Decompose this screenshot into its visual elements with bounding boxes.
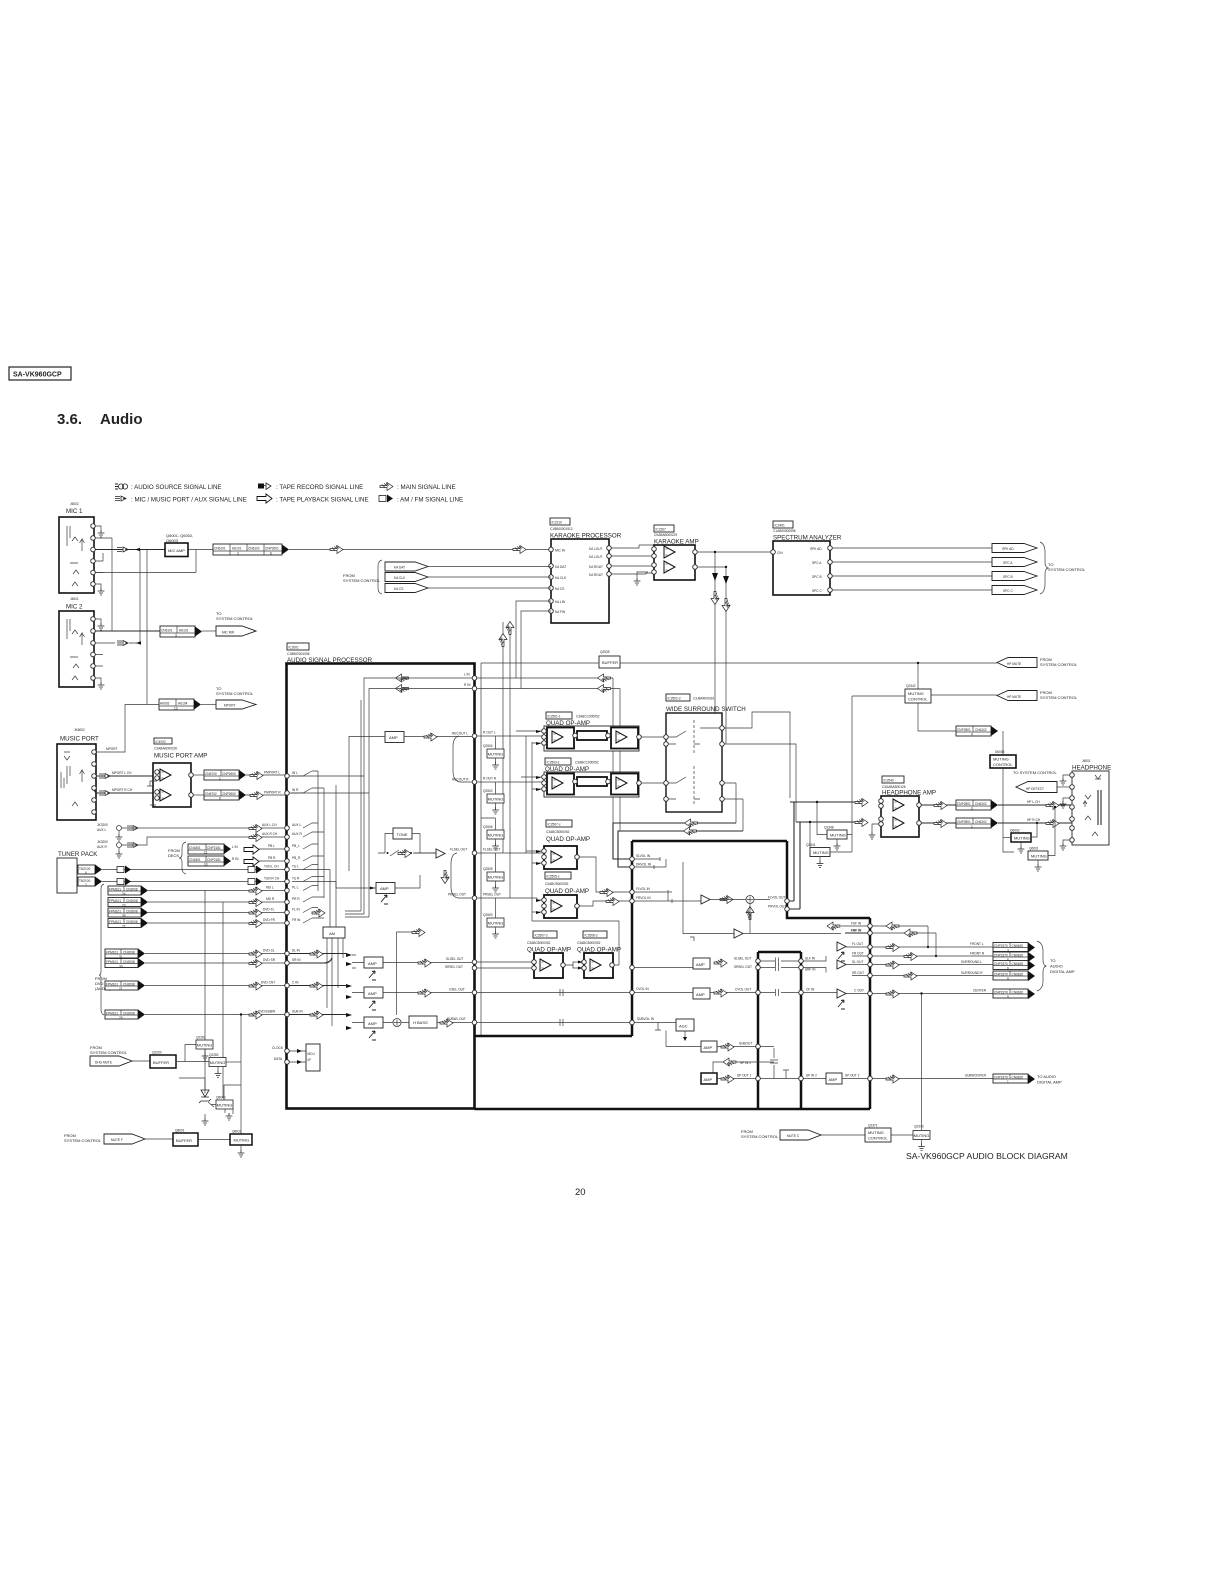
svg-text:C3JBAR00026: C3JBAR00026	[693, 697, 714, 701]
volume arrow under FL triangle	[838, 952, 845, 961]
volume arrow SL amp	[369, 971, 376, 980]
wire quad1 out to wss	[641, 736, 664, 738]
svg-text:IC2267: IC2267	[656, 528, 667, 532]
svg-text:AMP: AMP	[368, 961, 377, 966]
sp out 1 pin	[756, 1076, 761, 1081]
wire L IN row	[477, 677, 613, 679]
TN2100 connector L	[78, 865, 102, 876]
svg-text:MIC RW: MIC RW	[222, 631, 234, 635]
svg-text:TU L: TU L	[292, 865, 299, 869]
muting Q2504	[483, 736, 504, 769]
thick drvol feed line	[618, 831, 743, 867]
quad5 to quad6 wires	[565, 961, 583, 970]
main arrow SR OUT	[904, 972, 917, 980]
main arrow after fr amp	[720, 896, 733, 904]
svg-text:SA-VK960GCP: SA-VK960GCP	[13, 372, 62, 379]
MIC2 pin ground stubs	[95, 619, 104, 689]
svg-text:CN2008: CN2008	[123, 983, 135, 987]
svg-text:TO: TO	[1050, 958, 1055, 963]
recout hook to recout R	[453, 736, 472, 782]
main arrow hp L jack	[1046, 802, 1059, 810]
connector CNP2370 CN6620 center	[993, 989, 1035, 999]
svg-text:FLSEL OUT: FLSEL OUT	[483, 848, 500, 852]
svg-text:RECOUT L: RECOUT L	[452, 732, 468, 736]
wire to ASP in R	[246, 794, 287, 796]
main arrow mport R	[250, 792, 263, 800]
IC6702 boxed label	[154, 738, 172, 744]
svg-text:CNP2181: CNP2181	[207, 846, 221, 850]
wire MIC2 shield verticals	[103, 538, 112, 631]
wire deck R to ASP	[259, 860, 287, 862]
FIVOL OUT pin	[785, 899, 790, 904]
svg-text:CN6102: CN6102	[975, 802, 987, 806]
main arrow DVD FL row	[312, 909, 325, 917]
amfm symbol tuner L b	[248, 866, 262, 874]
FSF IN row	[827, 922, 872, 931]
MUTE C system tag	[780, 1130, 821, 1140]
svg-text:1: 1	[1007, 1080, 1009, 1084]
svg-text:PRSEL OUT: PRSEL OUT	[483, 893, 501, 897]
junction c out mute	[920, 992, 922, 994]
svg-text:AUX L CH: AUX L CH	[262, 823, 277, 827]
main arrow cvol amp	[714, 989, 727, 997]
main arrow subout	[721, 1043, 734, 1051]
wss interior switches	[668, 720, 720, 806]
AM block	[323, 927, 345, 938]
svg-text:: AUDIO SOURCE SIGNAL LINE: : AUDIO SOURCE SIGNAL LINE	[131, 484, 222, 491]
svg-text:CNP2370: CNP2370	[994, 944, 1008, 948]
svg-text:CONTROL: CONTROL	[908, 697, 928, 702]
SPC A system tag	[992, 558, 1037, 567]
wire wss to hp bus 1	[724, 744, 796, 822]
svg-text:FPM101: FPM101	[106, 951, 118, 955]
svg-text:AMP: AMP	[389, 735, 398, 740]
svg-text:SYSTEM CONTROL: SYSTEM CONTROL	[1040, 695, 1078, 700]
svg-text:FPM101: FPM101	[106, 983, 118, 987]
wire MIC2 to connector	[95, 630, 160, 632]
IC2505-c boxed label	[545, 872, 571, 879]
wire FL OUT row	[846, 946, 993, 948]
svg-text:C0ABAB000229: C0ABAB000229	[654, 533, 677, 537]
svg-text:WIDE SURROUND SWITCH: WIDE SURROUND SWITCH	[666, 706, 746, 713]
wire buffer to mutings	[176, 1045, 209, 1062]
thick slvol feed line	[613, 823, 736, 859]
svg-text:CN6620: CN6620	[1012, 944, 1024, 948]
svg-text:: MIC / MUSIC PORT / AUX SIGNA: : MIC / MUSIC PORT / AUX SIGNAL LINE	[131, 497, 247, 504]
main arrow SL in row	[310, 950, 323, 958]
MUTE F system tag	[104, 1134, 145, 1144]
main arrow slsel amp	[714, 959, 727, 967]
svg-text:22: 22	[122, 925, 126, 929]
PRVOL OUT pin	[785, 907, 790, 912]
svg-text:PR R: PR R	[292, 897, 300, 901]
svg-text:DHG MUTE: DHG MUTE	[95, 1061, 112, 1065]
svg-text:J6001: J6001	[1082, 759, 1091, 763]
FSF feedback wire	[872, 922, 929, 948]
svg-text:SP IN 1: SP IN 1	[740, 1061, 751, 1065]
volume arrow SUB amp	[369, 1031, 376, 1040]
amfm symbol tuner R a	[117, 878, 131, 886]
svg-text:KA CS: KA CS	[394, 587, 403, 591]
QUAD OP-AMP 1 block IC2501-1	[542, 726, 642, 751]
main arrow SL OUT	[886, 961, 899, 969]
MUTING CONTROL block Q2371	[865, 1128, 891, 1142]
svg-text:AUDIO: AUDIO	[1050, 964, 1063, 969]
main arrow aux L	[249, 825, 262, 833]
QUAD OP-AMP 3 block IC2507-c	[542, 846, 580, 869]
main arrow hp out L	[934, 802, 947, 810]
svg-text:6: 6	[1007, 967, 1009, 971]
wire R IN into asp	[289, 689, 472, 794]
svg-text:Q2502: Q2502	[483, 789, 493, 793]
svg-text:AMP: AMP	[368, 991, 377, 996]
HP DETECT system tag	[1016, 782, 1072, 793]
wire hp out L	[921, 804, 956, 806]
svg-text:Q8001: Q8001	[175, 1129, 185, 1133]
svg-text:PB R: PB R	[268, 856, 276, 860]
svg-text:L IN: L IN	[464, 673, 470, 677]
svg-text:J6002: J6002	[70, 502, 79, 506]
sp in 2 pin	[799, 1076, 804, 1081]
MUSIC PORT pin circles	[92, 750, 97, 815]
svg-text:Q2506: Q2506	[483, 825, 493, 829]
svg-text:CN6102: CN6102	[975, 728, 987, 732]
svg-text:25: 25	[119, 1016, 123, 1020]
quad3 input stubs	[526, 850, 542, 865]
slsel pins and caps	[756, 956, 826, 973]
svg-text:10: 10	[204, 863, 208, 867]
main arrow recout	[424, 733, 437, 741]
ASP interior input labels	[272, 771, 303, 1061]
TO AUDIO DIGITAL AMP label 2	[1037, 1074, 1062, 1085]
svg-text:35: 35	[122, 914, 126, 918]
svg-text:L IN: L IN	[232, 845, 238, 849]
wire amp C	[352, 992, 472, 994]
mic symbol on MIC1 line	[117, 547, 128, 552]
svg-text:KA DAT: KA DAT	[394, 566, 405, 570]
svg-text:9: 9	[219, 797, 221, 801]
subwoofer filter inner box	[758, 952, 801, 1109]
main arrow tone row	[398, 850, 411, 858]
svg-text:MUTING: MUTING	[1014, 836, 1030, 841]
svg-text:Q2281: Q2281	[196, 1036, 206, 1040]
svg-text:SRF IN: SRF IN	[805, 968, 816, 972]
svg-text:SPC A: SPC A	[1003, 561, 1013, 565]
svg-text:AUX L: AUX L	[97, 828, 106, 832]
svg-text:AMP: AMP	[829, 1077, 838, 1082]
karaoke right pins	[589, 546, 611, 577]
junction arrow on MIC1 line	[135, 548, 140, 552]
svg-text:IC2001: IC2001	[289, 646, 300, 650]
junction dvd subw mute	[240, 1013, 242, 1015]
svg-text:BUFFER: BUFFER	[176, 1138, 192, 1143]
svg-text:IC2508-2: IC2508-2	[585, 934, 598, 938]
svg-text:C OUT: C OUT	[854, 989, 864, 993]
SL OUT pin	[868, 962, 873, 967]
volume left pin circles	[630, 857, 635, 1025]
svg-text:CNP2600: CNP2600	[222, 772, 236, 776]
svg-text:1: 1	[971, 825, 973, 829]
agc down arrow	[683, 1031, 687, 1041]
svg-text:AUX L: AUX L	[292, 823, 301, 827]
svg-text:CN6102: CN6102	[248, 547, 260, 551]
HP MUTE system tag buffer	[997, 658, 1037, 668]
wire aux L to ASP	[122, 827, 287, 829]
lower front amp triangle	[683, 862, 841, 941]
wire hbass out	[401, 1022, 472, 1024]
svg-text:CN2008: CN2008	[123, 960, 135, 964]
AMP block slsel	[693, 958, 710, 969]
IC2210 boxed label	[550, 518, 570, 525]
volume arrow under C triangle	[838, 1000, 845, 1009]
svg-text:KA LIN: KA LIN	[555, 600, 566, 604]
wire deck L to ASP	[259, 848, 287, 850]
svg-text:CNP2181: CNP2181	[207, 858, 221, 862]
wire top connector down to muting control d6003	[1002, 731, 1004, 755]
svg-text:Q6001: Q6001	[1029, 847, 1039, 851]
wire to ASP in L	[246, 774, 287, 776]
vertical bass tap	[397, 929, 426, 1016]
svg-text:IC2540: IC2540	[884, 779, 895, 783]
main arrow flvol	[600, 889, 613, 897]
svg-text:DVD CNT: DVD CNT	[261, 981, 275, 985]
svg-text:MUTING: MUTING	[830, 833, 846, 838]
wire quad6 to slsel amp	[633, 967, 693, 969]
svg-text:C3ABCB000052: C3ABCB000052	[527, 941, 551, 945]
quad1 input stubs	[516, 730, 542, 745]
svg-text:7: 7	[85, 883, 87, 887]
svg-text:MPORT: MPORT	[106, 747, 118, 751]
wire subvol to agc	[634, 1023, 676, 1031]
wire L IN into asp	[289, 678, 472, 776]
wire vertical shield mic1	[146, 550, 148, 705]
svg-text:FPM101: FPM101	[109, 910, 121, 914]
clock data wires	[289, 1049, 306, 1064]
AGC block	[676, 1019, 694, 1031]
karaoke lin wire	[516, 601, 551, 678]
svg-text:DVD SR: DVD SR	[263, 958, 276, 962]
svg-text:IC2505-c: IC2505-c	[547, 875, 560, 879]
wire C OUT row	[846, 993, 993, 995]
long vertical bus from MD rows	[204, 891, 206, 1094]
AM input wires from tuner	[292, 870, 336, 928]
legend audio source symbol	[115, 484, 128, 489]
mic symbol on MIC2 aux line	[95, 550, 141, 646]
TO AUDIO DIGITAL AMP label	[1050, 958, 1075, 974]
AMP block cvol	[693, 988, 710, 999]
svg-text:PRSEL OUT: PRSEL OUT	[448, 893, 466, 897]
deck bracket	[179, 842, 186, 874]
svg-text:CNP2801: CNP2801	[957, 802, 971, 806]
main arrow subwl	[440, 1019, 453, 1027]
FPM101 CN2008 connector row DVD CNT	[105, 981, 287, 992]
svg-text:CONTROL: CONTROL	[868, 1136, 888, 1141]
svg-text:MPORT L CH: MPORT L CH	[112, 771, 132, 775]
svg-text:C1BB00001096: C1BB00001096	[287, 652, 310, 656]
svg-text:DIGITAL AMP: DIGITAL AMP	[1037, 1080, 1062, 1085]
svg-text:HP L-CH: HP L-CH	[1027, 800, 1040, 804]
wire subvol in from asp	[477, 1019, 630, 1026]
connector CNP2801 CN6102 R	[956, 818, 991, 829]
svg-text:CNP2801: CNP2801	[957, 820, 971, 824]
svg-text:SURROUND R: SURROUND R	[961, 971, 983, 975]
svg-text:KA FIN: KA FIN	[555, 610, 566, 614]
volume block right step edge	[787, 841, 870, 918]
svg-text:SR OUT: SR OUT	[852, 971, 864, 975]
svg-text:AMP: AMP	[704, 1045, 713, 1050]
svg-text:CNP2370: CNP2370	[994, 991, 1008, 995]
svg-text:Q8031: Q8031	[232, 1130, 242, 1134]
svg-text:PB_L: PB_L	[292, 844, 300, 848]
SPK AD system tag	[992, 544, 1037, 553]
muting Q2281	[196, 1040, 213, 1060]
diode Q8000 wires	[179, 1078, 211, 1118]
flsel hook to prsel	[451, 853, 472, 898]
BUFFER block Q2535	[599, 656, 620, 668]
HP MUTE system tag 2	[997, 691, 1037, 701]
junction dots karaoke outs	[714, 551, 727, 568]
svg-text:: AM / FM SIGNAL LINE: : AM / FM SIGNAL LINE	[397, 497, 463, 504]
main arrow slvol feed	[685, 819, 698, 827]
wire q2282 right	[226, 1061, 241, 1063]
C OUT triangle	[837, 989, 846, 998]
svg-text:MIC 1: MIC 1	[66, 508, 83, 515]
wire buffer row	[481, 662, 997, 664]
svg-text:DATA: DATA	[274, 1057, 283, 1061]
svg-text:CF IN: CF IN	[806, 988, 815, 992]
svg-text:CN2008: CN2008	[126, 899, 138, 903]
svg-text:C3ABCB000052: C3ABCB000052	[577, 941, 601, 945]
svg-text:R OUT R: R OUT R	[483, 777, 497, 781]
diode ground	[202, 1118, 209, 1125]
svg-text:SYSTEM CONTROL: SYSTEM CONTROL	[90, 1050, 128, 1055]
svg-text:CN6102: CN6102	[975, 820, 987, 824]
AMP block SL	[364, 957, 383, 968]
main arrow sp in 1	[723, 1058, 736, 1066]
svg-text:3.6.: 3.6.	[57, 411, 82, 428]
svg-text:Q2341: Q2341	[806, 843, 816, 847]
svg-text:CN2008: CN2008	[123, 1012, 135, 1016]
HEADPHONE AMP block IC2540	[879, 796, 922, 837]
svg-text:FR IN: FR IN	[292, 918, 301, 922]
AUX R jack	[116, 843, 123, 859]
svg-text:CN1801: CN1801	[189, 846, 201, 850]
black arrow after CNP2601	[282, 545, 289, 555]
svg-text:BUFFER: BUFFER	[153, 1060, 169, 1065]
svg-text:KA CS: KA CS	[555, 587, 564, 591]
hp amp ground	[869, 824, 879, 839]
svg-text:C3ABCB000052: C3ABCB000052	[545, 882, 569, 886]
wire SR OUT row	[852, 975, 993, 977]
connector CN6700 CNP2600 L	[204, 770, 239, 781]
KARAOKE PROCESSOR block IC2210	[551, 539, 609, 623]
main arrow R IN right	[598, 685, 611, 693]
muting Q2505	[483, 853, 504, 892]
wire dhg to buffer	[132, 1060, 150, 1062]
svg-text:SLVOL IN: SLVOL IN	[636, 854, 651, 858]
sub cap vertical	[760, 1047, 778, 1080]
svg-text:CN6101: CN6101	[214, 547, 226, 551]
TUNER PACK box	[57, 858, 77, 893]
main arrow C OUT	[886, 990, 899, 998]
IC2502-2 boxed label	[666, 694, 714, 701]
wire wss right top	[724, 712, 790, 798]
summing node subwoofer	[393, 1019, 401, 1027]
svg-text:PB L: PB L	[268, 844, 275, 848]
wire karaoke amp to spectrum CIN	[697, 551, 773, 553]
FL OUT pin	[868, 945, 873, 950]
wire wss to hp bus 2	[724, 783, 743, 831]
MIC AMP block	[165, 543, 188, 557]
svg-text:: TAPE PLAYBACK SIGNAL LINE: : TAPE PLAYBACK SIGNAL LINE	[276, 497, 369, 504]
wss right pins	[720, 726, 725, 802]
slsel in pin	[630, 965, 635, 970]
wires spectrum to system tags	[832, 548, 992, 590]
wire sp in 1	[713, 1062, 774, 1079]
main arrow on mic line 2	[513, 546, 526, 554]
DHG MUTE system tag	[90, 1056, 132, 1066]
wire R IN row	[477, 688, 620, 690]
MIC 2 jack connector box	[59, 611, 94, 687]
mic symbol aux R	[127, 843, 138, 848]
mic symbol aux L	[127, 826, 138, 831]
wire mport R ch	[94, 788, 153, 796]
svg-text:MUTING: MUTING	[813, 850, 829, 855]
svg-text:SYSTEM CONTROL: SYSTEM CONTROL	[741, 1134, 779, 1139]
black arrow mic2 connector	[195, 627, 202, 637]
sp out 2 pin	[868, 1076, 873, 1081]
svg-text:IC2507-c: IC2507-c	[548, 823, 561, 827]
svg-text:CIN: CIN	[777, 551, 783, 555]
svg-text:PL L: PL L	[292, 886, 299, 890]
svg-text:1: 1	[219, 777, 221, 781]
MIC 1 jack connector box	[59, 517, 94, 593]
wire cvol in from asp	[477, 989, 630, 996]
main arrow aux R	[249, 834, 262, 842]
IC2507-2 boxed label	[533, 931, 557, 938]
volume interior stubs top	[634, 857, 666, 869]
quad6 out wire	[532, 921, 619, 965]
svg-text:SLSEL OUT: SLSEL OUT	[734, 957, 751, 961]
wires asp to quad5	[477, 962, 532, 968]
svg-text:KA CLK: KA CLK	[394, 576, 406, 580]
svg-text:SPK AD: SPK AD	[1002, 547, 1014, 551]
muting Q2341	[809, 821, 852, 868]
svg-text:SL IN: SL IN	[292, 949, 301, 953]
FL OUT triangle	[837, 942, 846, 951]
SPC C system tag	[992, 586, 1037, 595]
AMP block sp1 bold	[701, 1073, 717, 1084]
svg-text:BUFFER: BUFFER	[602, 660, 618, 665]
wire hp R to jack	[998, 822, 1072, 824]
svg-text:SP OUT 1: SP OUT 1	[737, 1074, 752, 1078]
H BASS block	[409, 1016, 437, 1028]
svg-text:R IN: R IN	[464, 683, 471, 687]
svg-text:MUTING: MUTING	[993, 757, 1009, 762]
wire recout R to quad2	[477, 781, 542, 783]
muting Q2282	[209, 1054, 226, 1078]
muting Q6002	[1003, 822, 1038, 853]
HEADPHONE jack box	[1072, 771, 1109, 845]
volume arrow mid amp	[381, 895, 388, 904]
svg-text:QUAD OP-AMP: QUAD OP-AMP	[546, 836, 590, 843]
section heading 3.6 Audio	[57, 411, 143, 428]
svg-text:C3ABAB000230: C3ABAB000230	[154, 747, 177, 751]
main arrow sp out 1	[721, 1075, 734, 1083]
wire FR OUT row	[852, 955, 993, 957]
connector CNP2801 CN6102 L	[956, 800, 991, 811]
karaoke control bracket	[378, 560, 382, 594]
